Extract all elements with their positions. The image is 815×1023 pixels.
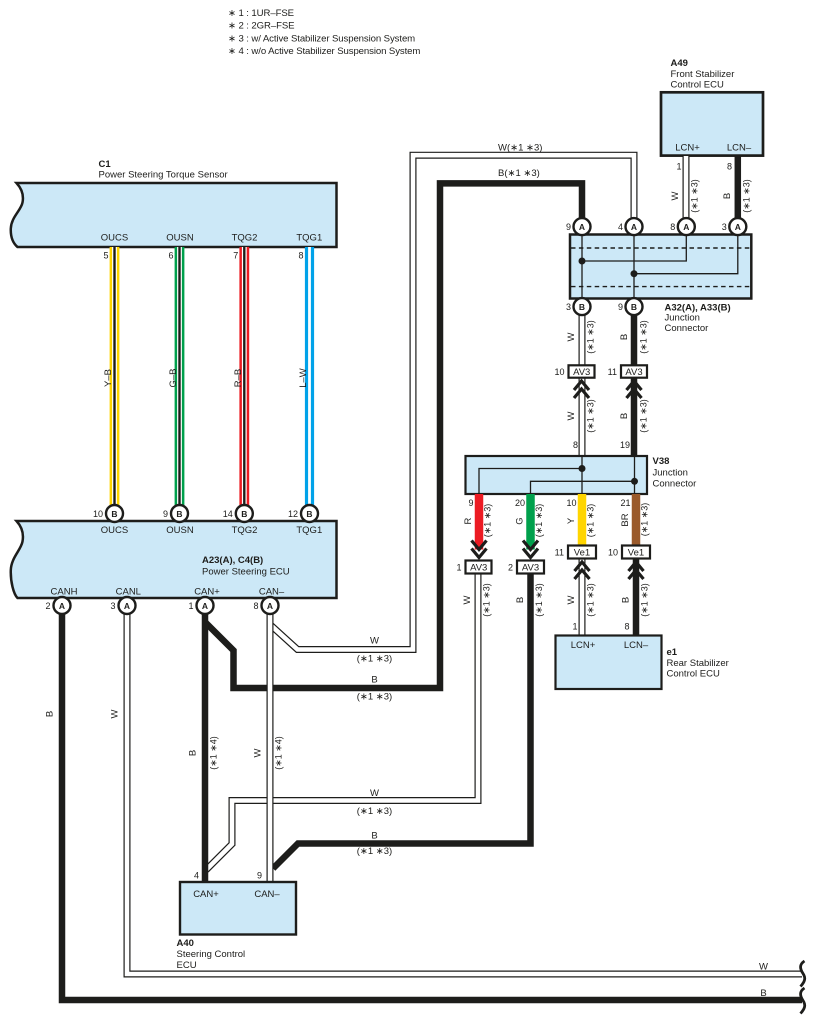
svg-text:V38: V38 [653, 456, 670, 467]
svg-text:1: 1 [188, 601, 193, 611]
svg-text:A: A [579, 222, 585, 232]
label B (*1 *3) on LCN- wire [722, 179, 752, 213]
chevron below 11 Ve1 [575, 562, 590, 579]
svg-text:OUSN: OUSN [166, 233, 194, 244]
svg-text:TQG1: TQG1 [296, 233, 322, 244]
wire B (*1 *4) from ECU CAN+ pin 1A to A40 pin 4 [202, 610, 209, 882]
svg-text:8: 8 [573, 440, 578, 450]
svg-text:1: 1 [456, 563, 461, 573]
svg-text:e1: e1 [667, 647, 678, 658]
svg-text:B: B [621, 597, 632, 603]
pin 4A circle (A32) [618, 218, 643, 235]
svg-text:TQG2: TQG2 [232, 233, 258, 244]
svg-text:L–W: L–W [298, 368, 309, 388]
svg-text:CAN–: CAN– [259, 587, 285, 598]
svg-text:(∗1 ∗3): (∗1 ∗3) [534, 583, 544, 617]
wire W from A49 LCN+ pin 1 to A32 pin 8A [683, 156, 690, 219]
label W (*1 *3) below 1-AV3 [462, 583, 492, 617]
A32 internal wire 3A branch [634, 235, 738, 274]
svg-text:W: W [253, 748, 264, 757]
junction dot V38 left [579, 465, 586, 472]
svg-text:8: 8 [670, 222, 675, 232]
svg-text:OUSN: OUSN [166, 525, 194, 536]
svg-text:Connector: Connector [653, 479, 697, 490]
A32 internal wire 4A to 9B [633, 235, 635, 298]
V38 internal wire 8 to 10 [581, 457, 583, 493]
svg-text:B: B [371, 675, 377, 686]
svg-text:B: B [306, 509, 312, 519]
svg-text:1: 1 [572, 622, 577, 632]
label W (*1 *3) below 11-Ve1 [566, 583, 596, 617]
svg-text:(∗1 ∗3): (∗1 ∗3) [690, 179, 700, 213]
svg-text:5: 5 [103, 251, 108, 261]
svg-text:11: 11 [555, 548, 564, 558]
svg-text:B: B [241, 509, 247, 519]
pin 14B circle [223, 505, 253, 522]
C1 title [99, 159, 228, 181]
pin 1A circle (ECU CAN+) [188, 597, 213, 614]
A32 dashed line lower [571, 286, 750, 288]
svg-text:CANL: CANL [116, 587, 141, 598]
connector 11 AV3 box [608, 365, 647, 378]
wire R-B from C1 pin 7 to ECU pin 14B [239, 247, 249, 506]
svg-text:9: 9 [257, 871, 262, 881]
svg-text:∗ 3 : w/ Active Stabilizer Sus: ∗ 3 : w/ Active Stabilizer Suspension Sy… [228, 34, 415, 45]
svg-text:(∗1 ∗3): (∗1 ∗3) [357, 846, 392, 857]
wire R from V38 pin 9 to connector 1-AV3 [475, 494, 484, 550]
pin 8A circle (A32) [670, 218, 695, 235]
svg-text:3: 3 [110, 601, 115, 611]
svg-text:3: 3 [566, 302, 571, 312]
svg-text:(∗1 ∗3): (∗1 ∗3) [357, 692, 392, 703]
svg-text:LCN–: LCN– [624, 640, 649, 651]
chevron above 1 AV3 [472, 541, 487, 558]
wire Y-B from C1 pin 5 to ECU pin 10B [110, 247, 120, 506]
A40 pin labels [193, 889, 280, 900]
connector C1 Power Steering Torque Sensor box [11, 183, 337, 247]
svg-text:21: 21 [620, 498, 630, 508]
svg-text:W(∗1 ∗3): W(∗1 ∗3) [498, 143, 542, 154]
svg-text:AV3: AV3 [625, 367, 642, 378]
A32 title [665, 303, 731, 335]
svg-text:(∗1 ∗3): (∗1 ∗3) [639, 320, 649, 354]
label W (*1 *3) on LCN+ wire [670, 179, 700, 213]
svg-text:CAN+: CAN+ [193, 889, 219, 900]
svg-text:(∗1 ∗3): (∗1 ∗3) [482, 583, 492, 617]
svg-text:Rear Stabilizer: Rear Stabilizer [667, 658, 729, 669]
svg-text:W: W [670, 191, 681, 200]
ECU bottom pin labels [51, 587, 285, 598]
svg-text:(∗1 ∗3): (∗1 ∗3) [357, 654, 392, 665]
svg-text:CAN–: CAN– [254, 889, 280, 900]
svg-text:AV3: AV3 [522, 562, 539, 573]
svg-text:Ve1: Ve1 [628, 547, 644, 558]
A40 title [177, 938, 246, 971]
junction connector A32(A) A33(B) box [570, 235, 751, 299]
svg-text:W: W [566, 332, 577, 341]
A32 dashed line upper [571, 247, 750, 249]
svg-text:W: W [110, 709, 121, 718]
svg-text:∗ 2 : 2GR–FSE: ∗ 2 : 2GR–FSE [228, 21, 294, 32]
break symbol on W wire [801, 961, 805, 987]
svg-text:G–B: G–B [168, 368, 179, 387]
wire G-B from C1 pin 6 to ECU pin 9B [175, 247, 185, 506]
svg-text:(∗1 ∗4): (∗1 ∗4) [209, 736, 219, 770]
svg-text:W: W [566, 595, 577, 604]
break symbol on B wire [801, 988, 805, 1014]
label B (*1 *3) below 2-AV3 [515, 583, 544, 617]
svg-text:Steering Control: Steering Control [177, 949, 246, 960]
svg-text:BR: BR [620, 513, 631, 526]
pin 12B circle [288, 505, 318, 522]
svg-text:G: G [515, 517, 526, 524]
svg-text:B: B [45, 711, 56, 717]
svg-text:9: 9 [618, 302, 623, 312]
svg-text:A: A [59, 601, 65, 611]
connector 10 Ve1 box [608, 546, 650, 559]
label W (*1 *3) below 10-AV3 [566, 399, 596, 433]
wire W (*1 *4) from ECU CAN- pin 8A to A40 pin 9 [267, 610, 274, 882]
wire W (*1 *3) branch from CAN- to A32 pin 4A [270, 155, 634, 649]
svg-text:CAN+: CAN+ [194, 587, 220, 598]
svg-text:B: B [619, 413, 630, 419]
label G (*1 *3) [515, 504, 545, 538]
ECU title [202, 555, 290, 578]
svg-text:R–B: R–B [233, 369, 244, 387]
A49 title [671, 58, 735, 90]
label B (*1 *3) below 10-Ve1 [621, 583, 650, 617]
svg-text:3: 3 [722, 222, 727, 232]
wire Y from V38 pin 10 to connector 11-Ve1 [578, 494, 587, 546]
svg-text:Ve1: Ve1 [574, 547, 590, 558]
svg-text:10: 10 [93, 509, 103, 519]
svg-text:Control ECU: Control ECU [667, 669, 720, 680]
svg-text:Power Steering ECU: Power Steering ECU [202, 567, 290, 578]
label R (*1 *3) [463, 504, 493, 538]
svg-text:(∗1 ∗3): (∗1 ∗3) [586, 504, 596, 538]
svg-text:11: 11 [608, 367, 617, 377]
A32 internal wire 8A branch [582, 235, 686, 261]
svg-text:2: 2 [45, 601, 50, 611]
wire B from A49 LCN- pin 8 to A32 pin 3A [735, 156, 742, 219]
pin 8A circle (ECU CAN-) [253, 597, 278, 614]
wire B from 10-Ve1 to e1 pin 8 [633, 559, 640, 637]
wire W (*1 *3) from connector 1-AV3 down to A40 pin 4 [206, 574, 478, 871]
ECU top pin labels [101, 525, 322, 536]
chevron below 11 AV3 [627, 381, 642, 398]
svg-text:B: B [371, 831, 377, 842]
svg-text:2: 2 [508, 563, 513, 573]
svg-text:LCN+: LCN+ [675, 143, 700, 154]
svg-text:Y: Y [566, 517, 577, 524]
connector 2 AV3 box [508, 561, 544, 574]
connector 11 Ve1 box [555, 546, 596, 559]
svg-text:B(∗1 ∗3): B(∗1 ∗3) [498, 168, 540, 179]
svg-text:C1: C1 [99, 159, 112, 170]
V38 internal branch to pin 9 [479, 469, 582, 494]
svg-text:∗ 1 : 1UR–FSE: ∗ 1 : 1UR–FSE [228, 8, 294, 19]
wire B from ECU CANH pin 2A to bottom right [62, 610, 802, 1000]
chevron above 2 AV3 [523, 541, 538, 558]
svg-text:Control ECU: Control ECU [671, 79, 724, 90]
svg-text:9: 9 [163, 509, 168, 519]
V38 internal wire 19 to 21 [634, 457, 636, 493]
svg-text:TQG1: TQG1 [296, 525, 322, 536]
V38 internal branch to pin 20 [531, 481, 635, 493]
connector A49 Front Stabilizer Control ECU box [661, 92, 763, 155]
label W (*1 *3) above 10-AV3 [566, 320, 596, 354]
wire W from A32 pin 3B to connector 10-AV3 and V38 pin 8 [579, 315, 586, 456]
wire B from A32 pin 9B to connector 11-AV3 and V38 pin 19 [631, 315, 638, 456]
e1 title [667, 647, 729, 680]
svg-text:W: W [462, 595, 473, 604]
svg-text:A23(A), C4(B): A23(A), C4(B) [202, 555, 263, 566]
C1 pin labels [101, 233, 322, 244]
junction dot A32 upper [579, 258, 586, 265]
svg-text:1: 1 [676, 162, 681, 172]
svg-text:A: A [267, 601, 273, 611]
wire B (*1 *3) from connector 2-AV3 down to A40 pin 9 [273, 574, 531, 869]
svg-text:19: 19 [620, 440, 630, 450]
wire W from 11-Ve1 to e1 pin 1 [579, 559, 586, 637]
label B (*1 *4) [188, 736, 219, 770]
junction connector V38 box [466, 456, 648, 494]
V38 title [653, 456, 697, 490]
wire G from V38 pin 20 to connector 2-AV3 [526, 494, 535, 550]
label Y (*1 *3) [566, 504, 596, 538]
junction dot A32 lower [631, 270, 638, 277]
A49 pin labels [675, 143, 752, 154]
svg-text:LCN+: LCN+ [571, 640, 596, 651]
svg-text:B: B [111, 509, 117, 519]
wire L-W from C1 pin 8 to ECU pin 12B [305, 247, 314, 506]
wire W from ECU CANL pin 3A to bottom right [127, 610, 802, 974]
svg-text:W: W [566, 411, 577, 420]
connector e1 Rear Stabilizer Control ECU box [556, 636, 662, 690]
svg-text:TQG2: TQG2 [232, 525, 258, 536]
svg-text:A: A [683, 222, 689, 232]
svg-text:10: 10 [554, 367, 564, 377]
label B (*1 *3) above 11-AV3 [619, 320, 649, 354]
svg-text:CANH: CANH [51, 587, 78, 598]
svg-text:A: A [202, 601, 208, 611]
svg-text:6: 6 [168, 251, 173, 261]
svg-text:8: 8 [298, 251, 303, 261]
svg-text:(∗1 ∗3): (∗1 ∗3) [639, 399, 649, 433]
junction dot V38 right [631, 478, 638, 485]
svg-text:4: 4 [618, 222, 623, 232]
svg-text:B: B [188, 750, 199, 756]
svg-text:W: W [370, 788, 379, 799]
svg-text:20: 20 [515, 498, 525, 508]
e1 pin labels [571, 640, 649, 651]
svg-text:LCN–: LCN– [727, 143, 752, 154]
svg-text:(∗1 ∗3): (∗1 ∗3) [640, 583, 650, 617]
wire B (*1 *3) branch from CAN+ to A32 pin 9A [205, 183, 582, 688]
svg-text:B: B [515, 597, 526, 603]
svg-text:ECU: ECU [177, 960, 197, 971]
svg-text:(∗1 ∗3): (∗1 ∗3) [483, 504, 493, 538]
svg-text:(∗1 ∗3): (∗1 ∗3) [534, 504, 544, 538]
svg-text:(∗1 ∗3): (∗1 ∗3) [586, 583, 596, 617]
svg-text:R: R [463, 517, 474, 524]
svg-text:A: A [124, 601, 130, 611]
A32 internal wire 9A to 3B [581, 235, 583, 298]
svg-text:(∗1 ∗4): (∗1 ∗4) [274, 736, 284, 770]
svg-text:Y–B: Y–B [103, 369, 114, 387]
svg-text:A49: A49 [671, 58, 688, 69]
svg-text:9: 9 [468, 498, 473, 508]
svg-text:W: W [370, 636, 379, 647]
svg-text:B: B [722, 193, 733, 199]
svg-text:B: B [619, 334, 630, 340]
connector A40 Steering Control ECU box [180, 882, 296, 935]
svg-text:B: B [760, 988, 766, 999]
pin 3A circle (A32) [722, 218, 747, 235]
note legend [228, 8, 420, 57]
connector A23/C4 Power Steering ECU box [11, 521, 337, 598]
svg-text:(∗1 ∗3): (∗1 ∗3) [357, 806, 392, 817]
svg-text:8: 8 [624, 622, 629, 632]
pin 9A circle (A32) [566, 218, 591, 235]
svg-text:A40: A40 [177, 938, 194, 949]
svg-text:10: 10 [608, 548, 618, 558]
pin 9B circle (A32) [618, 298, 643, 315]
svg-text:OUCS: OUCS [101, 233, 128, 244]
svg-text:B: B [176, 509, 182, 519]
svg-text:14: 14 [223, 509, 233, 519]
svg-text:9: 9 [566, 222, 571, 232]
connector 1 AV3 box [456, 561, 491, 574]
svg-text:A: A [631, 222, 637, 232]
svg-text:W: W [759, 962, 768, 973]
svg-text:Junction: Junction [653, 468, 688, 479]
label W (*1 *4) [253, 736, 284, 770]
svg-text:AV3: AV3 [573, 367, 590, 378]
svg-text:4: 4 [194, 871, 199, 881]
pin 3B circle (A32) [566, 298, 591, 315]
svg-text:B: B [631, 302, 637, 312]
svg-text:(∗1 ∗3): (∗1 ∗3) [586, 320, 596, 354]
connector 10 AV3 box [554, 365, 594, 378]
label B (*1 *3) below 11-AV3 [619, 399, 649, 433]
svg-text:7: 7 [233, 251, 238, 261]
svg-text:Power Steering Torque Sensor: Power Steering Torque Sensor [99, 170, 228, 181]
label BR (*1 *3) [620, 503, 650, 537]
pin 10B circle [93, 505, 123, 522]
pin 3A circle (ECU CANL) [110, 597, 135, 614]
chevron below 10 Ve1 [629, 562, 644, 579]
svg-text:(∗1 ∗3): (∗1 ∗3) [586, 399, 596, 433]
svg-text:(∗1 ∗3): (∗1 ∗3) [640, 503, 650, 537]
pin 2A circle (ECU CANH) [45, 597, 70, 614]
svg-text:12: 12 [288, 509, 298, 519]
chevron below 10 AV3 [574, 381, 589, 398]
svg-text:A: A [735, 222, 741, 232]
pin 9B circle [163, 505, 188, 522]
svg-text:OUCS: OUCS [101, 525, 128, 536]
wire BR from V38 pin 21 to connector 10-Ve1 [632, 494, 641, 546]
svg-text:10: 10 [566, 498, 576, 508]
svg-text:8: 8 [727, 162, 732, 172]
svg-text:(∗1 ∗3): (∗1 ∗3) [742, 179, 752, 213]
svg-text:B: B [579, 302, 585, 312]
svg-text:∗ 4 : w/o Active Stabilizer Su: ∗ 4 : w/o Active Stabilizer Suspension S… [228, 46, 420, 57]
svg-text:8: 8 [253, 601, 258, 611]
svg-text:AV3: AV3 [470, 562, 487, 573]
svg-text:Connector: Connector [665, 323, 709, 334]
